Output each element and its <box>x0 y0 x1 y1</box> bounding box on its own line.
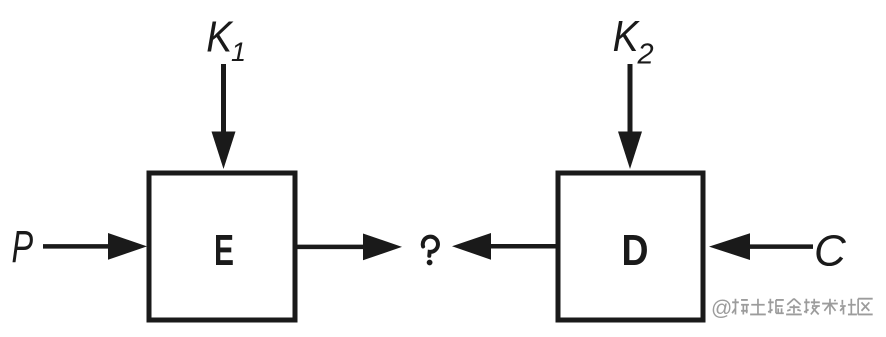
svg-text:1: 1 <box>231 37 246 67</box>
svg-text:@: @ <box>711 297 732 320</box>
encryption box E <box>149 173 295 320</box>
wire: arrow from D to ? <box>452 233 558 260</box>
土 <box>750 299 766 315</box>
svg-text:P: P <box>12 223 34 272</box>
decryption box D <box>558 173 703 320</box>
区 <box>858 299 873 315</box>
技 <box>804 299 820 315</box>
wire: K1 arrow into E <box>212 64 236 169</box>
label K2 <box>613 11 654 71</box>
svg-text:K: K <box>613 11 641 61</box>
svg-text:D: D <box>621 225 648 275</box>
node ? (question mark) <box>422 236 439 265</box>
watermark @juejin community <box>711 297 873 320</box>
svg-text:E: E <box>214 225 234 274</box>
社 <box>840 299 857 315</box>
wire: K2 arrow into D <box>618 64 642 169</box>
稀 <box>732 299 749 315</box>
label K1 <box>206 11 246 67</box>
svg-text:C: C <box>814 227 847 276</box>
掘 <box>768 299 784 314</box>
svg-text:2: 2 <box>637 39 654 71</box>
术 <box>822 299 838 315</box>
wire: E output arrow <box>297 234 402 261</box>
wire: C arrow into D <box>709 233 813 260</box>
wire: P arrow into E <box>43 233 147 260</box>
金 <box>786 299 802 315</box>
